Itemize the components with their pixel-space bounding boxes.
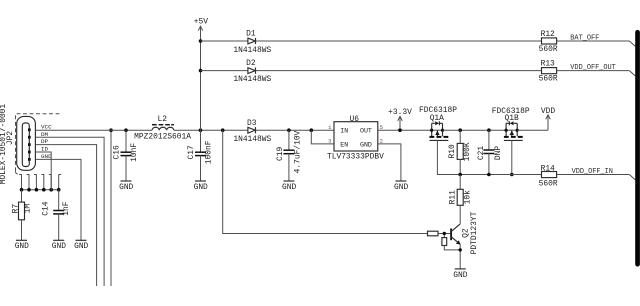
wire VBUS branch going down bbox=[110, 130, 112, 286]
inductor L2 bbox=[152, 125, 174, 131]
svg-text:1M: 1M bbox=[24, 204, 33, 214]
diode D2 bbox=[248, 68, 256, 74]
bus entry VDD_OFF_OUT bbox=[629, 71, 635, 76]
svg-text:EN: EN bbox=[340, 141, 348, 148]
svg-text:OUT: OUT bbox=[360, 128, 372, 135]
junction +3.3V bbox=[398, 128, 402, 132]
svg-text:IN: IN bbox=[340, 128, 348, 135]
svg-text:4.7uF/10V: 4.7uF/10V bbox=[294, 130, 303, 173]
resistor R11 bbox=[457, 175, 463, 224]
connector JP2 MOLEX-105017-0001 dashed courtyard box bbox=[16, 114, 62, 175]
svg-text:GND: GND bbox=[453, 271, 467, 280]
power symbol +3.3V bbox=[388, 108, 412, 130]
wire ID pin down to shield row bbox=[35, 152, 51, 190]
wire R14 to bus bbox=[557, 174, 630, 176]
wire R12 to bus bbox=[557, 40, 630, 42]
svg-text:C19: C19 bbox=[276, 147, 285, 161]
wire to D1 anode bbox=[201, 40, 248, 42]
capacitor C19 bbox=[283, 130, 294, 181]
junction R10 top bbox=[458, 128, 462, 132]
wire Q1A gate down to gate line bbox=[437, 140, 460, 174]
svg-text:GND: GND bbox=[15, 242, 29, 251]
bus entry BAT_OFF bbox=[629, 41, 635, 46]
junction Q1A left terminal bbox=[430, 129, 433, 132]
svg-text:R13: R13 bbox=[541, 60, 555, 69]
svg-text:R7: R7 bbox=[11, 204, 20, 214]
svg-text:10k: 10k bbox=[463, 190, 472, 204]
wire R13 to bus bbox=[557, 70, 630, 72]
svg-text:R11: R11 bbox=[449, 190, 458, 204]
power symbol VDD bbox=[541, 107, 555, 130]
wire D1 cathode to R12 bbox=[256, 40, 542, 42]
svg-text:560R: 560R bbox=[539, 75, 558, 84]
wire D2 cathode to R13 bbox=[256, 70, 542, 72]
diode D3 bbox=[248, 127, 256, 133]
svg-text:BAT_OFF: BAT_OFF bbox=[570, 35, 599, 43]
junction Q1A right terminal bbox=[441, 129, 444, 132]
svg-text:+5V: +5V bbox=[194, 18, 208, 27]
regulator U6 box bbox=[334, 122, 378, 151]
svg-text:MOLEX-105017-0001: MOLEX-105017-0001 bbox=[0, 104, 8, 185]
svg-text:10nF: 10nF bbox=[130, 143, 139, 162]
capacitor C21 bbox=[483, 130, 494, 174]
svg-text:GND: GND bbox=[394, 183, 408, 192]
wire Q1A to Q1B bbox=[443, 129, 507, 131]
svg-text:GND: GND bbox=[282, 183, 296, 192]
capacitor C14 bbox=[53, 190, 64, 241]
svg-text:3: 3 bbox=[328, 138, 331, 145]
junction VBUS branch bbox=[109, 128, 113, 132]
transistor Q2 PDTD123YT bbox=[428, 224, 461, 269]
svg-text:D2: D2 bbox=[246, 59, 256, 68]
junction R10 bottom R11 top bbox=[458, 173, 462, 177]
junction Q2 base node bbox=[443, 232, 446, 235]
wire GND pin to ground bbox=[35, 159, 81, 240]
wire to D2 anode bbox=[201, 70, 248, 72]
svg-text:GND: GND bbox=[52, 242, 66, 251]
wire D3 cathode to U6 IN bbox=[256, 129, 335, 131]
junction +5V to D2 wire bbox=[199, 69, 203, 73]
svg-text:Q1B: Q1B bbox=[504, 114, 518, 123]
svg-text:R12: R12 bbox=[541, 30, 555, 39]
transistor Q1B FDC6318P bbox=[504, 121, 523, 140]
svg-text:GND: GND bbox=[119, 183, 133, 192]
ground for connector GND pin bbox=[74, 240, 88, 251]
transistor Q1A FDC6318P bbox=[430, 121, 449, 140]
capacitor C17 bbox=[195, 130, 206, 181]
junction Q2 emitter node bbox=[459, 248, 462, 251]
junction U6 EN riser bbox=[310, 128, 314, 132]
wire EN riser bbox=[311, 130, 334, 144]
svg-text:VDD_OFF_OUT: VDD_OFF_OUT bbox=[570, 64, 616, 72]
resistor R14 bbox=[542, 172, 557, 178]
junction dots shield row bbox=[20, 188, 61, 192]
ground under R7 bbox=[15, 240, 29, 251]
wire shield junction row bbox=[22, 189, 59, 191]
capacitor C16 bbox=[121, 130, 132, 181]
junction Q1B left terminal bbox=[505, 129, 508, 132]
svg-text:C21: C21 bbox=[477, 146, 486, 160]
svg-text:C14: C14 bbox=[42, 201, 51, 215]
resistor R10 bbox=[457, 130, 463, 174]
wire VCC rail from connector to L2 bbox=[35, 129, 152, 131]
bus entry VDD_OFF_IN bbox=[629, 175, 635, 180]
connector JP2 contact tabs bbox=[28, 128, 31, 160]
wire Q1B gate down to gate line bbox=[511, 140, 513, 174]
ground under C19 bbox=[282, 181, 296, 192]
svg-text:560R: 560R bbox=[539, 180, 558, 189]
ground under Q2 bbox=[453, 269, 467, 280]
ground under U6 bbox=[394, 181, 408, 192]
junction C19 bbox=[287, 128, 291, 132]
svg-text:+3.3V: +3.3V bbox=[388, 108, 412, 117]
svg-text:L2: L2 bbox=[157, 115, 167, 124]
bus bar bbox=[635, 30, 640, 267]
wire gate line to R14 bbox=[460, 174, 541, 176]
ground under C17 bbox=[194, 181, 208, 192]
svg-text:1N4148WS: 1N4148WS bbox=[233, 75, 271, 84]
svg-text:Q1A: Q1A bbox=[430, 114, 444, 123]
wire U6 OUT to Q1A bbox=[378, 129, 432, 131]
svg-text:560R: 560R bbox=[539, 45, 558, 54]
wire Q2 base branch bbox=[223, 130, 428, 233]
wire U6 GND pin to ground bbox=[378, 144, 401, 181]
resistor R7 bbox=[19, 190, 25, 241]
wire DM pin going down bbox=[35, 137, 104, 286]
svg-text:D1: D1 bbox=[246, 29, 256, 38]
svg-text:GND: GND bbox=[360, 141, 372, 148]
diode D1 bbox=[248, 38, 256, 44]
ground under C16 bbox=[119, 181, 133, 192]
ground under C14 bbox=[52, 240, 66, 251]
svg-text:1N4148WS: 1N4148WS bbox=[233, 135, 271, 144]
svg-text:1nF: 1nF bbox=[62, 201, 71, 215]
junction Q2 base branch bbox=[221, 128, 225, 132]
resistor R13 bbox=[542, 68, 557, 74]
svg-text:1N4148WS: 1N4148WS bbox=[233, 46, 271, 55]
wire Q1B to VDD bbox=[517, 129, 548, 131]
resistor R12 bbox=[542, 38, 557, 44]
junction C21 top bbox=[487, 128, 491, 132]
svg-text:TLV73333PDBV: TLV73333PDBV bbox=[327, 153, 384, 162]
junction +5V riser and C17 bbox=[199, 128, 203, 132]
svg-text:GND: GND bbox=[74, 242, 88, 251]
power symbol +5V bbox=[194, 18, 208, 131]
junction Q1B right terminal bbox=[516, 129, 519, 132]
svg-text:R10: R10 bbox=[448, 144, 457, 158]
wire L2 to D3 bbox=[174, 129, 248, 131]
svg-text:GND: GND bbox=[194, 183, 208, 192]
svg-text:100nF: 100nF bbox=[205, 140, 214, 164]
svg-text:C16: C16 bbox=[112, 145, 121, 159]
svg-text:PDTD123YT: PDTD123YT bbox=[470, 211, 479, 254]
svg-text:D3: D3 bbox=[247, 119, 257, 128]
connector shield pin stubs with hooks bbox=[19, 175, 61, 190]
svg-text:C17: C17 bbox=[187, 145, 196, 159]
svg-text:U6: U6 bbox=[350, 115, 360, 124]
connector JP2 body outline bbox=[17, 116, 36, 170]
junction +5V to D1 wire bbox=[199, 39, 203, 43]
wire DP pin going down bbox=[35, 145, 96, 286]
junction Q1B gate bbox=[510, 173, 514, 177]
junction C21 bottom bbox=[487, 173, 491, 177]
junction C16 bbox=[124, 128, 128, 132]
svg-text:DNP: DNP bbox=[494, 146, 503, 160]
svg-text:MPZ2012S601A: MPZ2012S601A bbox=[134, 132, 191, 141]
svg-text:100K: 100K bbox=[463, 142, 472, 161]
svg-text:VDD_OFF_IN: VDD_OFF_IN bbox=[572, 168, 613, 176]
svg-text:R14: R14 bbox=[541, 165, 555, 174]
svg-text:VCC: VCC bbox=[41, 123, 52, 130]
